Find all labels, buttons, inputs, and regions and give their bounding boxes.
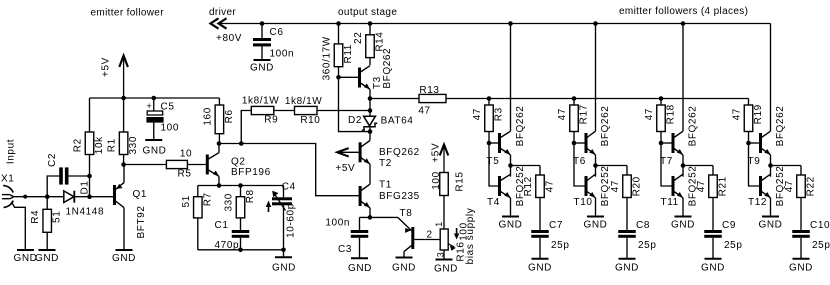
svg-text:47: 47 xyxy=(472,108,483,120)
svg-text:BFP196: BFP196 xyxy=(231,167,271,178)
junction T5 emitter / T4 collector / output xyxy=(508,163,513,168)
svg-text:C3: C3 xyxy=(338,244,352,255)
svg-text:GND: GND xyxy=(142,146,166,157)
capacitor C1 470p xyxy=(232,230,250,233)
junction Q2 emitter xyxy=(217,183,222,188)
resistor R1 xyxy=(123,98,125,132)
svg-text:C10: C10 xyxy=(810,220,830,231)
resistor R6 xyxy=(218,98,220,105)
resistor R22 47 xyxy=(797,175,806,198)
svg-text:10: 10 xyxy=(180,148,192,159)
svg-text:GND: GND xyxy=(701,263,725,274)
resistor R3 47 xyxy=(488,99,490,106)
svg-text:R20: R20 xyxy=(632,176,643,196)
junction R1 top xyxy=(121,96,126,101)
transistor T11 BFQ252 xyxy=(672,176,675,196)
wire T12 emitter to ground xyxy=(770,198,772,217)
svg-text:T2: T2 xyxy=(379,158,392,169)
ground under C6 xyxy=(254,59,271,61)
svg-text:T9: T9 xyxy=(748,156,761,167)
svg-text:GND: GND xyxy=(498,219,522,230)
junction Q2 collector / R6 xyxy=(217,141,222,146)
resistor R17 47 xyxy=(573,99,575,106)
svg-text:BFQ262: BFQ262 xyxy=(600,106,611,147)
junction R17 top xyxy=(572,96,577,101)
svg-text:47: 47 xyxy=(696,180,707,192)
junction T6 emitter / T10 collector / output xyxy=(593,163,598,168)
svg-text:R18: R18 xyxy=(666,104,677,124)
svg-text:GND: GND xyxy=(13,253,37,264)
ground under X1 xyxy=(17,249,34,251)
svg-text:47: 47 xyxy=(644,108,655,120)
junction C4 bottom / ground xyxy=(281,248,286,253)
wire T3 emitter column xyxy=(369,89,371,116)
transistor T12 BFQ252 xyxy=(759,176,762,196)
diode D1 1N4148 xyxy=(64,191,74,203)
wire input row xyxy=(14,196,64,198)
svg-text:R5: R5 xyxy=(178,168,192,179)
svg-text:BAT64: BAT64 xyxy=(381,116,414,127)
junction D2 / T2 collector / bootstrap xyxy=(368,129,373,134)
resistor R15 100 xyxy=(440,173,449,196)
transistor T8 (bias, PNP) xyxy=(398,217,412,230)
ground under C5 xyxy=(145,139,162,141)
svg-text:R13: R13 xyxy=(419,85,439,96)
svg-text:T1: T1 xyxy=(379,180,392,191)
transistor T3 BFQ262 xyxy=(358,68,361,88)
transistor T1 BFG235 xyxy=(359,186,362,206)
svg-text:C8: C8 xyxy=(636,220,650,231)
svg-text:+5V: +5V xyxy=(335,163,355,174)
resistor R13 47 xyxy=(370,98,419,100)
junction R13 tap xyxy=(368,96,373,101)
svg-text:GND: GND xyxy=(112,253,136,264)
svg-text:R17: R17 xyxy=(579,104,590,124)
wire R9 branch up xyxy=(241,111,251,144)
svg-text:GND: GND xyxy=(35,253,59,264)
svg-text:R21: R21 xyxy=(718,176,729,196)
resistor R12 47 xyxy=(536,175,545,198)
svg-text:GND: GND xyxy=(348,263,372,274)
svg-text:GND: GND xyxy=(615,263,639,274)
svg-text:T5: T5 xyxy=(487,156,500,167)
transistor Q1 BFT92 (PNP) xyxy=(113,185,116,205)
junction top rail cell 1 xyxy=(508,21,513,26)
svg-text:R10: R10 xyxy=(300,115,320,126)
wire +80V top rail xyxy=(220,23,771,25)
wire bootstrap down to D2 node xyxy=(339,77,371,131)
junction R8 top xyxy=(238,183,243,188)
resistor R7 xyxy=(197,186,199,197)
junction R17 / bases xyxy=(572,141,577,146)
resistor R2 xyxy=(89,155,91,197)
svg-text:25p: 25p xyxy=(638,240,657,251)
svg-text:R1: R1 xyxy=(107,138,118,152)
svg-text:R15: R15 xyxy=(455,171,466,191)
wire base feed T7 xyxy=(661,142,672,144)
wire base feed T6 xyxy=(574,142,585,144)
svg-text:100n: 100n xyxy=(325,218,350,229)
resistor R19 47 xyxy=(748,99,750,106)
svg-text:GND: GND xyxy=(250,63,274,74)
junction R1/Q1 emitter/R5 xyxy=(121,162,126,167)
junction C2/R2 xyxy=(87,174,92,179)
svg-text:Q2: Q2 xyxy=(231,157,246,168)
wire emitter node row xyxy=(360,216,398,218)
capacitor C10 25p xyxy=(792,230,810,233)
svg-text:47: 47 xyxy=(557,108,568,120)
svg-text:D2: D2 xyxy=(348,115,362,126)
ground under R16 xyxy=(436,259,453,261)
ground under Q1 xyxy=(116,249,133,251)
junction R19 / bases xyxy=(746,141,751,146)
ground under R4 xyxy=(39,249,56,251)
resistor R14 22 xyxy=(369,24,371,35)
svg-text:GND: GND xyxy=(789,263,813,274)
svg-text:T11: T11 xyxy=(661,197,679,208)
svg-text:BFQ262: BFQ262 xyxy=(688,106,699,147)
svg-text:1: 1 xyxy=(434,221,444,227)
+5V supply arrow at R15 xyxy=(443,147,445,173)
svg-text:100: 100 xyxy=(161,123,180,134)
capacitor C8 25p xyxy=(618,230,636,233)
svg-text:1k8/1W: 1k8/1W xyxy=(285,96,323,107)
svg-text:47: 47 xyxy=(784,180,795,192)
wire X1 shield tail to ground xyxy=(12,202,26,250)
wire bottom rail C1/C4 xyxy=(198,249,284,251)
ground under C9 xyxy=(705,258,722,260)
svg-text:C2: C2 xyxy=(47,153,58,167)
junction R3 / bases xyxy=(487,141,492,146)
transistor T7 BFQ262 xyxy=(672,133,675,153)
svg-text:360/17W: 360/17W xyxy=(322,36,333,80)
svg-text:BFT92: BFT92 xyxy=(136,205,147,238)
svg-text:+5V: +5V xyxy=(431,143,442,163)
transistor T10 BFQ252 xyxy=(585,176,588,196)
svg-text:GND: GND xyxy=(434,264,458,275)
resistor R18 47 xyxy=(660,99,662,106)
svg-text:R11: R11 xyxy=(343,44,354,63)
resistor R4 xyxy=(46,197,48,210)
ground under T12 xyxy=(762,216,779,218)
wire base feed T12 xyxy=(749,143,760,186)
wire base feed T11 xyxy=(661,143,672,186)
svg-text:10-60p: 10-60p xyxy=(286,203,297,238)
resistor R20 47 xyxy=(623,175,632,198)
resistor R5 xyxy=(166,160,187,168)
svg-text:51: 51 xyxy=(52,211,63,223)
svg-text:C1: C1 xyxy=(215,220,229,231)
wire D1 node to Q1 base xyxy=(90,196,114,198)
svg-text:T7: T7 xyxy=(660,156,673,167)
wire R11 to T3 base xyxy=(339,76,359,78)
junction R11 / T3 base xyxy=(336,75,341,80)
svg-text:R3: R3 xyxy=(494,107,505,121)
transistor T6 BFQ262 xyxy=(585,133,588,153)
svg-text:T8: T8 xyxy=(400,208,413,219)
wire collector T6 from +80V rail xyxy=(595,24,597,132)
svg-text:C9: C9 xyxy=(722,220,736,231)
svg-text:25p: 25p xyxy=(812,240,830,251)
svg-text:+: + xyxy=(147,101,153,111)
svg-text:R8: R8 xyxy=(245,189,256,203)
svg-text:T12: T12 xyxy=(748,197,767,208)
svg-text:T6: T6 xyxy=(573,156,586,167)
diode D2 BAT64 (schottky) xyxy=(364,116,376,126)
svg-text:R12: R12 xyxy=(523,176,534,196)
svg-text:BFG235: BFG235 xyxy=(379,191,420,202)
capacitor C7 25p xyxy=(531,230,549,233)
ground under C3 xyxy=(351,257,368,259)
svg-text:47: 47 xyxy=(545,180,556,192)
junction C5 top xyxy=(151,96,156,101)
svg-text:R4: R4 xyxy=(30,210,41,224)
svg-text:C6: C6 xyxy=(270,27,284,38)
transistor Q2 BFP196 xyxy=(206,155,209,175)
svg-text:100: 100 xyxy=(431,171,442,190)
svg-text:330: 330 xyxy=(224,193,235,212)
+5V supply arrow xyxy=(123,58,125,98)
svg-text:BFQ262: BFQ262 xyxy=(382,48,393,89)
svg-text:R9: R9 xyxy=(264,114,278,125)
wire base feed T10 xyxy=(574,143,585,186)
wire output node to R20 xyxy=(596,165,628,167)
capacitor C9 25p xyxy=(704,230,722,233)
junction R18 / bases xyxy=(659,141,664,146)
capacitor C5 electrolytic xyxy=(153,98,155,111)
svg-text:GND: GND xyxy=(758,219,782,230)
svg-text:T10: T10 xyxy=(574,197,593,208)
svg-text:R19: R19 xyxy=(753,104,764,124)
wire +5V rail upper-left xyxy=(90,97,220,99)
junction top rail cell 2 xyxy=(593,21,598,26)
wire second rail to emitter follower cells xyxy=(446,98,749,100)
svg-text:T4: T4 xyxy=(487,197,500,208)
junction T1 emitter node xyxy=(368,215,373,220)
transistor T2 BFQ262 xyxy=(369,132,371,141)
junction T7 emitter / T11 collector / output xyxy=(681,163,686,168)
svg-text:25p: 25p xyxy=(551,240,570,251)
svg-text:bias supply: bias supply xyxy=(465,208,476,265)
wire node to R5 xyxy=(124,164,167,166)
svg-text:X1: X1 xyxy=(1,174,14,185)
svg-text:100n: 100n xyxy=(270,49,295,60)
wire base feed T9 xyxy=(749,142,760,144)
trimmer capacitor C4 10-60p xyxy=(283,186,285,198)
X1 pin dot xyxy=(23,195,27,199)
wire R10 to D2 column xyxy=(317,110,370,112)
ground under T10 xyxy=(587,216,604,218)
wire T11 emitter to ground xyxy=(682,198,684,217)
svg-text:R6: R6 xyxy=(224,109,235,123)
svg-text:47: 47 xyxy=(418,106,430,117)
svg-text:330: 330 xyxy=(128,136,139,155)
ground under C7 xyxy=(532,258,549,260)
wire T10 emitter to ground xyxy=(595,198,597,217)
svg-text:+5V: +5V xyxy=(101,57,112,77)
potentiometer R16 100 (bias supply) xyxy=(440,229,448,250)
resistor R21 47 xyxy=(709,175,718,198)
junction input/R4/C2 xyxy=(45,194,50,199)
wire T1 emitter down xyxy=(369,208,371,218)
wire T8 base to R16 wiper xyxy=(414,239,440,241)
wire collector T7 from +80V rail xyxy=(682,24,684,132)
svg-text:GND: GND xyxy=(583,219,607,230)
resistor R10 1k8/1W xyxy=(295,106,318,114)
junction T9 emitter / T12 collector / output xyxy=(768,163,773,168)
svg-text:1k8/1W: 1k8/1W xyxy=(242,96,280,107)
+80V supply arrow (driver) xyxy=(211,18,219,28)
ground under T11 xyxy=(675,216,692,218)
+5V arrow at T2 base xyxy=(338,151,359,153)
wire base feed T5 xyxy=(489,142,498,144)
svg-text:1N4148: 1N4148 xyxy=(66,207,105,218)
svg-text:+80V: +80V xyxy=(216,33,242,44)
junction R11 top xyxy=(336,21,341,26)
junction top rail cell 3 xyxy=(681,21,686,26)
svg-text:47: 47 xyxy=(732,108,743,120)
wire output node to R12 xyxy=(511,165,541,167)
svg-text:GND: GND xyxy=(392,263,416,274)
junction R3 top xyxy=(487,96,492,101)
svg-text:GND: GND xyxy=(528,263,552,274)
ground under T8 xyxy=(396,257,413,259)
transistor T5 BFQ262 xyxy=(498,133,501,153)
wire collector rail to T1 base xyxy=(219,144,359,196)
svg-text:10k: 10k xyxy=(94,136,105,154)
wire T2 emitter to T1 collector xyxy=(369,164,371,184)
wire output node to R22 xyxy=(771,165,802,167)
svg-text:160: 160 xyxy=(202,107,213,126)
svg-text:R22: R22 xyxy=(806,176,817,196)
ground under C8 xyxy=(619,258,636,260)
svg-text:C5: C5 xyxy=(161,102,175,113)
svg-text:C7: C7 xyxy=(549,220,563,231)
svg-text:R2: R2 xyxy=(73,138,84,152)
wire collector T9 from +80V rail xyxy=(770,24,772,132)
capacitor C3 100n xyxy=(359,217,361,230)
junction R10 tap xyxy=(368,108,373,113)
wire collector T5 from +80V rail xyxy=(510,24,512,132)
svg-text:C4: C4 xyxy=(282,182,296,193)
resistor R8 xyxy=(240,186,242,197)
transistor T4 BFQ252 xyxy=(498,176,501,196)
wire output node to R21 xyxy=(683,165,713,167)
svg-text:Input: Input xyxy=(6,139,17,164)
capacitor C6 100n xyxy=(260,21,265,26)
svg-text:BFQ262: BFQ262 xyxy=(775,106,786,147)
svg-text:47: 47 xyxy=(610,180,621,192)
junction R14 top xyxy=(368,21,373,26)
resistor R11 360/17W xyxy=(338,24,340,44)
svg-text:emitter followers (4 places): emitter followers (4 places) xyxy=(619,6,748,17)
svg-text:emitter follower: emitter follower xyxy=(91,7,165,18)
svg-text:BFQ262: BFQ262 xyxy=(515,106,526,147)
ground under C10 xyxy=(793,258,810,260)
svg-text:Q1: Q1 xyxy=(133,189,148,200)
junction R9 branch xyxy=(239,141,244,146)
svg-text:GND: GND xyxy=(272,263,296,274)
svg-text:25p: 25p xyxy=(724,240,743,251)
junction R18 top xyxy=(659,96,664,101)
transistor T9 BFQ262 xyxy=(759,133,762,153)
capacitor C2 xyxy=(47,176,59,197)
svg-text:GND: GND xyxy=(671,219,695,230)
svg-text:output stage: output stage xyxy=(338,7,397,18)
svg-text:51: 51 xyxy=(181,195,192,207)
svg-text:BFQ262: BFQ262 xyxy=(379,147,420,158)
ground under T4 xyxy=(502,216,519,218)
svg-text:driver: driver xyxy=(209,7,236,18)
junction C1 bottom xyxy=(238,248,243,253)
wire R9 to R10 xyxy=(274,110,295,112)
resistor R9 1k8/1W xyxy=(251,106,273,114)
svg-text:R7: R7 xyxy=(202,192,213,206)
junction D1/R2/Q1 base xyxy=(87,194,92,199)
wire base feed T4 xyxy=(489,143,498,186)
ground under C4/C1 rail xyxy=(283,250,285,257)
svg-text:22: 22 xyxy=(353,32,364,44)
wire emitter row xyxy=(198,185,284,187)
wire T4 emitter to ground xyxy=(510,198,512,217)
